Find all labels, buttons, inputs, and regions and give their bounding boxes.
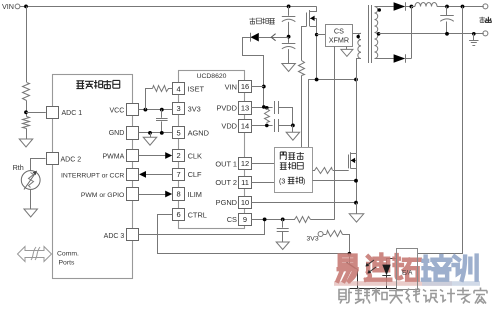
junction VDD ground node	[291, 124, 295, 128]
svg-text:VDD: VDD	[221, 122, 237, 131]
node output- terminal	[483, 31, 488, 36]
svg-text:UCD8620: UCD8620	[197, 73, 227, 80]
svg-text:VIN: VIN	[2, 2, 14, 11]
svg-text:3V3: 3V3	[188, 104, 201, 113]
wire gate-drive common drop	[308, 80, 310, 148]
wire R1 to R2	[26, 101, 28, 117]
wire PGND to Q2 source	[251, 202, 356, 204]
wire PWMA to CLK	[139, 155, 166, 157]
pin U1-3 3V3	[173, 103, 185, 115]
svg-text:6: 6	[177, 210, 181, 219]
capacitor C6 output	[446, 7, 448, 16]
resistor R1 input divider upper	[23, 83, 30, 101]
capacitor C3 bias lower	[282, 43, 296, 45]
pin CCR box	[127, 169, 139, 181]
svg-text:PWM or GPIO: PWM or GPIO	[81, 192, 124, 199]
svg-text:13: 13	[241, 103, 249, 112]
wire ADC2 to thermistor	[31, 159, 46, 171]
svg-text:ISET: ISET	[188, 84, 205, 93]
wire GPIO to ILIM	[139, 194, 166, 196]
label digital-controller title (Chinese)	[76, 81, 84, 89]
svg-text:): )	[303, 179, 305, 186]
wire ADC3 to CS sense	[139, 220, 265, 235]
open arrowhead bias winding ref	[271, 34, 275, 41]
svg-text:12: 12	[241, 159, 249, 168]
pin U1-5 AGND	[173, 127, 185, 139]
pin U1-4 ISET	[173, 83, 185, 95]
capacitor C1 3V3 bypass	[161, 110, 163, 118]
junction output cap return	[445, 32, 449, 36]
junction output feedback tap	[461, 5, 465, 9]
diode D4 opto LED wiring	[387, 259, 397, 265]
pin GND box	[127, 127, 139, 140]
diode D1 output top	[394, 2, 406, 10]
svg-text:GND: GND	[109, 130, 125, 137]
junction GND-ground branch	[148, 131, 152, 135]
comm ports bus arrow	[18, 247, 52, 262]
pin U1-2 CLK	[173, 150, 185, 162]
inductor L1 output	[411, 6, 415, 8]
wire gate-drive common	[308, 79, 356, 81]
pin ADC2 box	[47, 153, 59, 165]
junction source node	[315, 78, 319, 82]
svg-text:VIN: VIN	[225, 82, 237, 91]
wire CS XFMR sense drop	[334, 46, 336, 219]
wire CS pin to resistor	[251, 219, 295, 221]
junction L1 output cap	[445, 5, 449, 9]
svg-text:PGND: PGND	[216, 198, 237, 207]
ground PGND	[356, 203, 358, 214]
wire feedback drop	[418, 7, 463, 254]
svg-text:16: 16	[241, 82, 249, 91]
wire R5 to gate-drive box	[301, 76, 303, 148]
wire bias cap drop	[288, 6, 290, 15]
svg-text:E/A: E/A	[402, 270, 413, 277]
node output+ terminal	[483, 4, 488, 9]
junction PGND node	[354, 201, 358, 205]
phase dot T1 secondary	[378, 8, 381, 11]
pin GPIO box	[127, 188, 139, 201]
ground thermistor	[24, 209, 38, 217]
svg-text:CLK: CLK	[188, 151, 202, 160]
wire opto emitter rail	[349, 288, 397, 290]
wire source to CS XFMR	[317, 34, 326, 36]
capacitor C2 bias upper	[282, 16, 296, 18]
svg-text:ADC 1: ADC 1	[62, 110, 83, 117]
svg-text:OUT 1: OUT 1	[215, 159, 237, 168]
pin U1-6 CTRL	[173, 209, 185, 221]
wire thermistor to ground	[30, 189, 32, 209]
wire gate-drive return to Q2 source	[313, 180, 357, 182]
label gate-drive transformer (Chinese)	[280, 152, 286, 160]
wire CLF to CCR	[146, 174, 172, 176]
capacitor C7 CS filter	[282, 219, 284, 227]
junction VDD-res	[265, 124, 269, 128]
wire secondary bottom lead	[375, 58, 394, 60]
junction rectifier node	[410, 5, 414, 9]
wire top rail VIN to Q1 drain	[20, 6, 317, 8]
svg-text:7: 7	[177, 170, 181, 179]
svg-text:8: 8	[177, 190, 181, 199]
svg-text:CTRL: CTRL	[188, 210, 207, 219]
svg-text:10: 10	[241, 198, 249, 207]
watermark slogan gray (Chinese)	[339, 289, 352, 304]
junction VIN pin tee	[262, 85, 266, 89]
op-amp E/A error amplifier box	[397, 249, 418, 290]
junction VCC-ISET branch	[144, 108, 148, 112]
svg-text:PWMA: PWMA	[103, 153, 125, 160]
pin U1-13 PVDD	[239, 102, 252, 115]
wire primary bottom	[357, 59, 361, 80]
svg-text:AGND: AGND	[188, 129, 209, 138]
junction GND-cap branch	[160, 131, 164, 135]
svg-text:11: 11	[241, 178, 249, 187]
junction VCC-cap branch	[160, 108, 164, 112]
wire CS XFMR to primary	[353, 33, 362, 35]
transistor Q2 low-side MOSFET	[356, 80, 358, 154]
junction Q1 source / CS xfmr	[315, 33, 318, 36]
pin U1-8 ILIM	[173, 188, 185, 201]
pin U1-12 OUT1	[239, 158, 252, 170]
ground AGND	[150, 133, 152, 137]
capacitor C5 VDD	[274, 119, 276, 132]
wire CTRL to opto node	[158, 215, 350, 254]
transformer T1 core	[368, 5, 370, 63]
transformer T1 secondary winding	[375, 7, 378, 14]
pin U1-7 CLF	[173, 169, 185, 181]
phase dot T1 primary	[357, 35, 360, 38]
optocoupler U3 emission arrows	[366, 260, 376, 273]
thermistor Rth symbol	[21, 171, 40, 190]
wire C2 to diode node	[288, 22, 290, 43]
wire R8 to CTRL node	[343, 235, 350, 254]
junction CTRL-opto node	[348, 252, 352, 256]
pin U1-9 CS	[239, 214, 252, 226]
wire OUT1 to gate-drive	[251, 163, 274, 165]
junction bias diode node	[287, 35, 291, 39]
wire ISET riser	[146, 89, 153, 110]
op-amp U1 UCD8620 box	[179, 71, 245, 229]
wire R7 to CS xfmr drop	[311, 219, 335, 221]
ground CS XFMR	[346, 46, 348, 49]
pin U1-14 VDD	[239, 120, 252, 133]
optocoupler U3 phototransistor wiring	[349, 254, 351, 264]
transformer gate-drive box (3 windings)	[275, 148, 313, 193]
capacitor C4 PVDD	[274, 101, 276, 114]
junction divider tap	[24, 110, 28, 114]
ground bias	[282, 64, 296, 72]
resistor R5 Q1 gate	[299, 61, 305, 76]
label bias winding (Chinese)	[249, 18, 255, 24]
junction CS-ADC3	[263, 218, 267, 222]
svg-text:Ports: Ports	[59, 259, 75, 266]
svg-text:3: 3	[177, 104, 181, 113]
wire tap to ADC1	[26, 112, 46, 114]
diode D4 opto LED body	[382, 265, 390, 276]
junction PVDD-VIN	[262, 105, 266, 109]
junction primary bottom node	[354, 78, 358, 82]
svg-text:(3: (3	[279, 179, 285, 186]
svg-text:CLF: CLF	[188, 170, 202, 179]
junction T1 center tap	[377, 32, 381, 36]
wire GND to AGND pin	[139, 132, 173, 134]
digital controller U2 box	[53, 75, 133, 279]
junction top rail bias cap	[287, 5, 291, 9]
ground VDD	[292, 125, 294, 132]
ground output	[473, 34, 475, 41]
svg-text:PVDD: PVDD	[216, 104, 237, 113]
resistor R4 PVDD-VDD	[265, 109, 270, 123]
svg-text:2: 2	[177, 151, 181, 160]
pin ADC3 box	[127, 229, 139, 241]
pin U1-11 OUT2	[239, 177, 252, 189]
transistor Q1 high-side MOSFET	[310, 7, 317, 12]
wire VIN divider drop	[26, 6, 28, 82]
resistor R2 input divider lower	[23, 117, 30, 129]
diode D2 output bottom	[394, 54, 406, 62]
diode D3 bias (points left)	[250, 33, 252, 42]
junction CS-filter cap	[281, 218, 285, 222]
node 3V3 terminal	[318, 232, 323, 237]
svg-text:OUT 2: OUT 2	[215, 178, 237, 187]
pin ADC1 box	[47, 107, 59, 119]
transformer T1 primary winding	[358, 33, 361, 39]
svg-text:ILIM: ILIM	[188, 190, 202, 199]
resistor R6 Q2 gate	[313, 170, 316, 172]
svg-text:ADC 3: ADC 3	[104, 233, 125, 240]
svg-text:XFMR: XFMR	[329, 36, 349, 45]
wire bias diode to VIN pin	[243, 38, 264, 107]
svg-text:5: 5	[177, 128, 181, 137]
junction Q2 source / return	[354, 179, 358, 183]
wire Q1 gate lead	[302, 27, 307, 61]
svg-text:Comm.: Comm.	[57, 250, 79, 257]
junction PVDD-res	[265, 106, 269, 110]
wire D2 riser	[411, 7, 413, 59]
resistor R8 opto pull-up	[323, 234, 326, 236]
svg-text:VCC: VCC	[110, 107, 125, 114]
svg-text:3V3: 3V3	[307, 235, 319, 242]
svg-text:CS: CS	[227, 215, 237, 224]
svg-text:14: 14	[241, 121, 249, 130]
wire center tap to output return	[379, 33, 484, 35]
junction VIN rail / divider	[24, 5, 28, 9]
resistor R3 ISET	[153, 86, 169, 92]
wire VDD stub	[251, 125, 272, 127]
wire Q1 source drop	[316, 26, 318, 79]
pin VCC box	[127, 104, 139, 116]
wire OUT2 to gate-drive	[251, 182, 274, 184]
svg-text:INTERRUPT or CCR: INTERRUPT or CCR	[61, 173, 124, 180]
wire VIN pin stub	[251, 86, 264, 88]
junction output ground tap	[472, 32, 476, 36]
svg-text:9: 9	[243, 215, 247, 224]
ground CS filter	[276, 242, 289, 250]
wire R2 to ground	[26, 129, 28, 140]
svg-text:Rth: Rth	[13, 163, 24, 172]
wire secondary top lead	[375, 6, 394, 8]
svg-text:4: 4	[177, 84, 181, 93]
transformer CS XFMR box	[326, 25, 353, 47]
wire C3 to ground	[288, 49, 290, 63]
wire PVDD stub	[251, 107, 272, 109]
wire R3 to pin4	[168, 88, 172, 90]
pin U1-10 PGND	[239, 197, 252, 209]
svg-text:ADC 2: ADC 2	[61, 157, 82, 164]
pin U1-16 VIN	[239, 81, 252, 93]
ground divider	[19, 139, 33, 147]
label output (Chinese)	[479, 17, 485, 23]
pin PWMA box	[127, 150, 139, 162]
wire VCC to 3V3 pin	[139, 109, 173, 111]
resistor R7 CS filter	[295, 217, 311, 223]
svg-text:CS: CS	[334, 26, 344, 35]
watermark logo yiditu (red/blue)	[334, 255, 480, 286]
